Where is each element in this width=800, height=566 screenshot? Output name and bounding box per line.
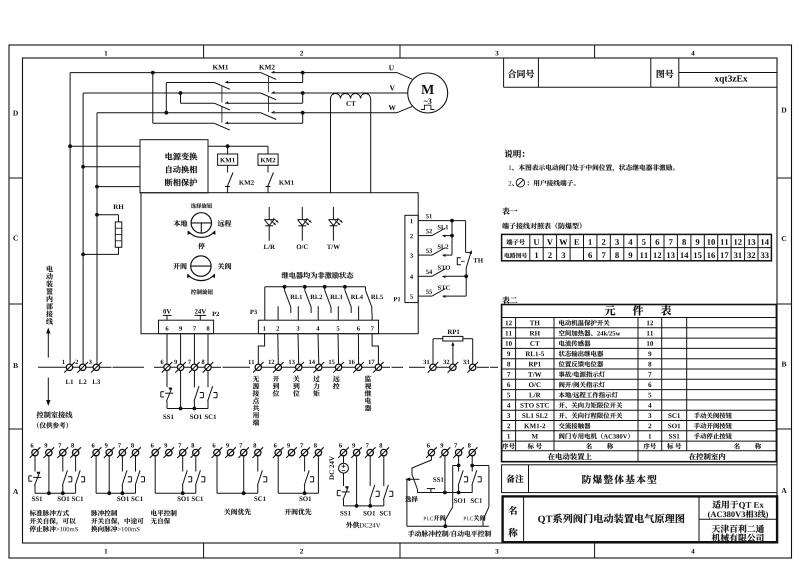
- selector knob local/remote: [191, 213, 211, 233]
- drawing number xqt3zEx: [714, 77, 719, 81]
- table2 row 5 L/R: [507, 393, 510, 398]
- pushbutton SO1 g1: [62, 470, 67, 485]
- right border zone ticks: [777, 177, 792, 179]
- table2 row 11 RH: [506, 331, 509, 336]
- wire KM1 branch row 3 (U to W): [152, 73, 154, 124]
- wire terminal8 down: [207, 371, 209, 388]
- terminal 8: [469, 449, 475, 455]
- node U tap: [151, 71, 155, 75]
- contactor KM1 contact row3: [214, 123, 230, 130]
- vertical label 关到位: [293, 376, 299, 382]
- P3 pin numbers: [263, 326, 265, 330]
- label CT: [346, 101, 350, 106]
- remark box 备注: [502, 465, 777, 493]
- wire relay common bus: [265, 286, 366, 288]
- node L2 feed: [81, 165, 85, 169]
- terminal 6: [275, 449, 281, 455]
- label SC1 g3: [192, 497, 195, 502]
- label 关阀: [218, 263, 225, 270]
- vertical label 远控: [333, 376, 340, 382]
- current transformer CT coil: [331, 94, 371, 99]
- caption group6: [346, 522, 352, 528]
- label SS1 g1: [32, 497, 35, 502]
- terminal 1: [66, 364, 72, 370]
- node g7 busSO1: [457, 491, 461, 495]
- label SC1 g7: [471, 498, 474, 503]
- wires P3 pins2-6 to terminals: [277, 334, 280, 364]
- wire STO-STC vertical: [465, 276, 467, 296]
- contactor KM2 contact U: [261, 73, 277, 80]
- control board box: [141, 193, 418, 334]
- node g2 bus9: [107, 491, 111, 495]
- PLC open contact: [445, 507, 452, 520]
- label 选择: [405, 496, 411, 502]
- label SO1 g3: [178, 497, 181, 502]
- title block frame: [503, 496, 777, 542]
- wire g5 bus: [278, 492, 318, 494]
- label 0V: [163, 309, 166, 314]
- label KM1: [213, 65, 218, 70]
- knob2 rotate arrows: [188, 275, 214, 281]
- label SC1 g4: [254, 497, 257, 502]
- wire g7-8 down: [471, 456, 473, 472]
- label STO: [438, 266, 441, 270]
- bottom zone numbers 1-4: [105, 549, 108, 554]
- node U out: [301, 71, 305, 75]
- heater RH body: [115, 222, 122, 247]
- pushbutton SO1 (open): [194, 386, 199, 401]
- terminal 9: [166, 449, 172, 455]
- terminal 8: [72, 449, 78, 455]
- KM2 mechanical link: [268, 76, 270, 92]
- label L3: [92, 380, 96, 384]
- terminal 16: [355, 364, 361, 370]
- relay contact RL1: [284, 287, 286, 291]
- note line 2 prefix: [508, 181, 511, 186]
- table1 row labels: [507, 239, 513, 245]
- node g7 tap8: [470, 464, 474, 468]
- selector knob open/close: [191, 256, 211, 276]
- contactor KM1 contact row2: [214, 103, 230, 110]
- 0V underline: [163, 314, 172, 316]
- indicator LED trouble/power: [332, 207, 334, 220]
- label P1: [394, 297, 398, 301]
- node g2 busSO1: [121, 491, 125, 495]
- indicator LED open/close: [301, 207, 303, 220]
- node RL3 tap: [323, 285, 327, 289]
- node SL1 junction: [450, 234, 454, 238]
- wire 51 down to TH: [465, 221, 467, 253]
- node RL2 tap: [303, 285, 307, 289]
- terminal 9: [442, 449, 448, 455]
- wire terminal7 down: [193, 371, 195, 388]
- torque switch STO: [432, 269, 446, 277]
- node g1 busSO1: [61, 491, 65, 495]
- label SC1 g6: [380, 511, 383, 516]
- terminal 6: [152, 449, 158, 455]
- terminal 7: [119, 449, 125, 455]
- P3 pin stubs: [277, 306, 279, 320]
- vertical label 无源接点共用端: [253, 376, 259, 382]
- label T/W: [327, 245, 331, 249]
- label SS1 g6: [340, 511, 343, 516]
- node W out: [301, 111, 305, 115]
- terminal 6: [340, 449, 346, 455]
- left border zone ticks: [9, 177, 23, 179]
- terminal 9: [106, 449, 112, 455]
- contract-number box: [503, 58, 505, 87]
- label 51: [426, 214, 429, 218]
- label PLC开阀: [423, 517, 426, 521]
- wire g5-6 down: [277, 456, 279, 493]
- node 51/SL1 junction: [450, 219, 454, 223]
- wire P3 pin1 to terminal 11: [258, 334, 264, 364]
- wire source down: [343, 473, 345, 486]
- wire g2-9 down: [108, 456, 110, 493]
- motor label ~3: [424, 100, 428, 102]
- label V: [390, 85, 395, 90]
- T-bar actuator: [427, 488, 435, 490]
- relay contact RL5: [366, 290, 372, 307]
- terminal 8: [255, 449, 261, 455]
- wire g5-8 down: [317, 456, 319, 493]
- label 开阀: [173, 263, 180, 269]
- wire terminal6 down: [166, 371, 168, 388]
- wire g1-7 down: [62, 456, 64, 472]
- terminal 12: [275, 364, 281, 370]
- label SS1 g7: [433, 477, 436, 482]
- DC source circle: [339, 463, 349, 473]
- label 55: [426, 290, 429, 294]
- wire g1 bus: [35, 492, 76, 494]
- wire L3 feed to module: [97, 186, 140, 188]
- label 断相保护: [165, 179, 173, 187]
- wire V line: [83, 92, 261, 94]
- caption group4: [224, 509, 230, 515]
- heading 表一: [502, 207, 509, 214]
- pushbutton SS1 g1: [34, 472, 39, 486]
- label SO1 g1: [58, 497, 61, 502]
- node g4 bus7: [242, 491, 246, 495]
- component table 元件表 grid: [502, 305, 777, 462]
- label PLC关阀: [463, 517, 466, 521]
- wire g7-6 diagonal: [412, 456, 431, 475]
- label L/R: [264, 245, 268, 249]
- terminal 7: [191, 364, 197, 370]
- KM1 mechanical link: [221, 87, 223, 103]
- motor label M: [421, 85, 434, 94]
- table2 row 9 RL1-5: [507, 351, 510, 356]
- limit switch SL2: [432, 248, 446, 256]
- terminal 6: [164, 364, 170, 370]
- node PLC rail: [443, 524, 447, 528]
- pushbutton SC1 g2: [135, 470, 140, 485]
- node W tap: [164, 111, 168, 115]
- terminal 7: [60, 449, 66, 455]
- terminal 9: [227, 449, 233, 455]
- wire 24V stub: [199, 315, 201, 320]
- bottom border zone ticks: [203, 543, 205, 558]
- wire g6-7 down: [369, 456, 371, 486]
- label P2: [212, 312, 216, 316]
- wire SL1 line: [418, 235, 432, 237]
- wire g1-9 down: [48, 456, 50, 493]
- wire SL2 line: [418, 254, 432, 256]
- terminal 8: [381, 449, 387, 455]
- caption group7: [408, 530, 414, 536]
- caption group3: [151, 510, 157, 516]
- table2 row 3 SL1 SL2: [507, 413, 510, 418]
- caption group5: [285, 509, 291, 515]
- label TH: [473, 258, 477, 262]
- label 53: [426, 249, 429, 253]
- pushbutton SO1 g3: [182, 470, 187, 485]
- wire g4-8 down: [257, 456, 259, 472]
- pushbutton SS1 g6: [343, 487, 348, 501]
- table2 footer 在电动装置上 / 在控制室内: [548, 453, 555, 460]
- contactor coil KM2: [258, 154, 278, 165]
- label O/C: [297, 245, 302, 250]
- label 合同号: [508, 70, 516, 78]
- suitability 适用于QT Ex: [712, 500, 720, 508]
- label SO1 g6: [363, 511, 366, 516]
- label KM2 interlock: [239, 180, 244, 184]
- label SL2: [438, 245, 441, 249]
- wire g2 bus: [96, 492, 135, 494]
- vertical label 过力矩: [313, 376, 319, 382]
- heading 表二: [502, 296, 509, 303]
- label KM1 interlock: [279, 180, 284, 184]
- wire P3 pin7 to terminal 17: [372, 334, 378, 364]
- remark text 防爆整体基本型: [582, 475, 591, 484]
- wire STC line: [418, 295, 432, 297]
- wire phase L3 vertical: [96, 113, 98, 364]
- terminal 6: [93, 449, 99, 455]
- terminal 17: [375, 364, 381, 370]
- wire phase L1 vertical: [69, 73, 71, 365]
- label SC1 g2: [131, 497, 134, 502]
- terminal 8: [315, 449, 321, 455]
- motor pulse symbol: [421, 105, 435, 109]
- terminal 9: [353, 449, 359, 455]
- company 天津百利二通: [712, 525, 720, 533]
- terminal 7: [241, 449, 247, 455]
- terminal 6: [428, 449, 434, 455]
- wire g7-9 down: [444, 456, 446, 493]
- selector contact blade g7: [412, 475, 418, 490]
- torque switch STC: [432, 289, 446, 297]
- node RH bottom: [81, 253, 85, 257]
- wire g2-7 down: [121, 456, 123, 472]
- label 名称 (name): [508, 506, 517, 515]
- contactor coil KM1: [218, 154, 238, 165]
- potentiometer RP1 body: [443, 336, 463, 341]
- wires P2 pins to terminals: [166, 334, 168, 364]
- terminal 8: [132, 449, 138, 455]
- relay contact RL2: [304, 287, 306, 291]
- wire tap8 to PLC-close rail: [472, 465, 489, 467]
- wire g1-6 down: [34, 456, 36, 472]
- suitability (AC380V3相3线): [708, 511, 710, 519]
- wire terminal9 down: [180, 371, 182, 409]
- wire button bus: [167, 408, 208, 410]
- terminal 11: [255, 364, 261, 370]
- arrow up (internal wiring): [47, 330, 49, 358]
- wire RH bottom: [118, 247, 120, 254]
- pushbutton SC1 (close): [208, 386, 213, 401]
- connector P2 box: [159, 320, 214, 334]
- terminal 14: [316, 364, 322, 370]
- vertical label DC 24V: [329, 456, 334, 480]
- wire g6-8 down: [383, 456, 385, 486]
- right zone letters D C B A: [781, 108, 786, 113]
- wire g7 bottom rail: [407, 525, 489, 527]
- terminal 6: [32, 449, 38, 455]
- pushbutton SO1 g6: [370, 485, 375, 500]
- wire terminals 1-3 link: [64, 366, 103, 368]
- motor M circle: [408, 73, 448, 113]
- pushbutton SC1 g6: [383, 485, 388, 500]
- wire STO line: [418, 275, 432, 277]
- pushbutton SO1 g5: [304, 470, 309, 485]
- P2 pin numbers: [166, 326, 169, 330]
- pushbutton SC1 g7: [472, 470, 477, 485]
- terminal 15: [335, 364, 341, 370]
- relay contact RL4: [344, 287, 346, 291]
- node g3 busSO1: [181, 491, 185, 495]
- terminal 9: [288, 449, 294, 455]
- wire RP1 left: [433, 338, 443, 340]
- RP1 wiper arrow: [452, 345, 454, 364]
- wire g6-9 down: [356, 456, 358, 506]
- pushbutton SC1 g3: [195, 470, 200, 485]
- 24V underline: [195, 314, 207, 316]
- wire 0V stub: [166, 315, 168, 320]
- wire terminals 31-32 link: [429, 366, 453, 368]
- terminal 32: [450, 364, 456, 370]
- thermal switch TH: [466, 251, 471, 253]
- label W: [388, 105, 395, 110]
- wire g7 blade to bus: [417, 490, 419, 493]
- connector P3 box: [258, 320, 378, 334]
- wire KM1 branch row 2 (V to V): [180, 93, 182, 103]
- label 本地: [174, 220, 181, 227]
- wire L1 feed to module: [70, 145, 140, 147]
- indicator LED local/remote: [268, 207, 270, 220]
- pushbutton SO1 g2: [122, 470, 127, 485]
- caption group1: [30, 510, 36, 516]
- label STC: [438, 286, 441, 290]
- label KM2: [259, 65, 264, 70]
- pushbutton SS1 (stop): [166, 388, 171, 402]
- terminal 7: [367, 449, 373, 455]
- contactor KM2 contact V: [261, 93, 277, 100]
- table1 terminal map grid: [502, 234, 772, 260]
- label 24V: [195, 309, 198, 313]
- label SO1: [190, 415, 193, 420]
- note 继电器均为非激励状态: [282, 272, 289, 279]
- wire tap7 to PLC-open rail: [453, 465, 459, 467]
- label SC1 g1: [72, 497, 75, 502]
- wire g3-7 down: [182, 456, 184, 472]
- wire g3-8 down: [195, 456, 197, 472]
- table2 row 10 CT: [506, 341, 509, 346]
- P1 pin numbers: [410, 219, 412, 223]
- wire g6-6 to source: [343, 456, 345, 464]
- pushbutton SO1 g7: [458, 470, 463, 485]
- contactor KM2 contact W: [261, 113, 277, 120]
- terminal 13: [296, 364, 302, 370]
- terminal 7: [455, 449, 461, 455]
- note line 2 text: [528, 182, 529, 186]
- label RH: [113, 204, 118, 209]
- wire g4-6 down: [216, 456, 218, 493]
- node KM1 coil tap: [226, 144, 230, 148]
- label P3: [250, 310, 254, 314]
- pushbutton SC1 g4: [257, 470, 262, 485]
- terminal 31: [430, 364, 436, 370]
- table2 row 2 KM1-2: [507, 424, 510, 429]
- vertical note 电动装置内部接线: [47, 266, 53, 272]
- wire RP1 right: [463, 338, 473, 340]
- relay contact RL3: [324, 287, 326, 291]
- wire g6 bus: [344, 505, 384, 507]
- node V out: [301, 91, 305, 95]
- table2 row 12 TH: [506, 321, 509, 326]
- label U: [389, 65, 394, 70]
- node L3 feed: [95, 185, 99, 189]
- connector P1 box: [405, 215, 418, 302]
- table1 circuit numbers row: [535, 252, 538, 258]
- node RH top: [95, 213, 99, 217]
- label 52: [426, 229, 429, 233]
- label 选择旋钮: [191, 203, 196, 208]
- pushbutton SC1 g1: [75, 470, 80, 485]
- wire 51 from P1 pin1: [418, 220, 465, 222]
- terminal 8: [193, 449, 199, 455]
- terminal 9: [46, 449, 52, 455]
- contactor KM1 contact row1: [214, 83, 230, 90]
- note ⊘ symbol: [516, 179, 524, 187]
- boundary dash line (device/control room): [38, 366, 64, 368]
- caption group2: [91, 510, 97, 516]
- wire SL1-SL2 vertical: [451, 221, 453, 256]
- label SO1 g2: [117, 497, 120, 502]
- terminal 8: [205, 364, 211, 370]
- PLC close contact: [483, 507, 489, 520]
- heading 端子接线对照表（防爆型）: [502, 223, 509, 230]
- wire W line: [97, 112, 261, 114]
- node RL1 tap: [283, 285, 287, 289]
- node STO junction: [464, 274, 468, 278]
- wire KM1 coil top: [227, 146, 229, 154]
- note 控制室接线: [37, 411, 44, 418]
- wire g7 left rail: [406, 479, 408, 526]
- wire RL5 corner: [365, 287, 367, 291]
- note line 1: [509, 165, 511, 170]
- labels RL1-RL5: [290, 295, 295, 299]
- wire g2-8 down: [135, 456, 137, 472]
- heading 说明：: [505, 150, 513, 158]
- label SO1 g7: [454, 498, 457, 503]
- wire g1-8 down: [75, 456, 77, 472]
- node g7 bus9: [443, 491, 447, 495]
- wire TH to STO: [465, 269, 467, 277]
- limit switch SL1: [432, 228, 446, 236]
- node V tap: [179, 91, 183, 95]
- node busSO1: [193, 407, 197, 411]
- terminal 3: [93, 364, 99, 370]
